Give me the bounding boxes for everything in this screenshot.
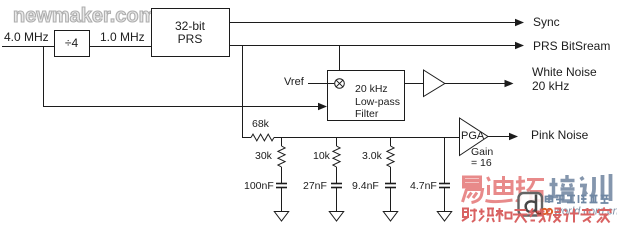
wire Sync output: [230, 22, 516, 24]
watermark small char 9: [597, 208, 611, 223]
value label 10k: [313, 151, 330, 163]
arrowhead PRS BitSream: [515, 42, 524, 50]
wire Pink Noise output: [488, 136, 510, 138]
wire rail left segment: [242, 137, 251, 139]
ground G2: [329, 212, 343, 222]
value label ÷4: [54, 37, 89, 50]
watermark logo box d: [519, 193, 543, 216]
watermark logo orange mark: [542, 209, 552, 214]
wire R4 to C3: [390, 167, 392, 183]
arrowhead Pink Noise: [509, 133, 518, 141]
multiplier M1: [335, 79, 345, 89]
watermark small char 8: [581, 208, 595, 223]
watermark red logo block: [450, 170, 617, 228]
watermark small char 3: [496, 208, 512, 222]
wire branch bitstream to multiplier: [339, 46, 341, 79]
ground G3: [383, 212, 397, 222]
wire 4.0MHz input: [2, 46, 54, 48]
watermark small char 6: [547, 209, 562, 223]
watermark big char 4: [549, 175, 575, 201]
wire rail to PGA: [274, 137, 460, 139]
watermark big char 1: [463, 177, 483, 203]
resistor R4 3.0k: [387, 146, 394, 167]
wire tap 30k: [281, 138, 283, 147]
watermark big char 3: [516, 176, 544, 201]
wire C4 to ground: [444, 188, 446, 212]
node label PRS BitSream: [533, 40, 610, 53]
wire branch bitstream down to pink filter: [242, 46, 244, 138]
value label 20 kHz Low-pass Filter: [355, 83, 400, 121]
resistor R1 68k: [251, 134, 274, 141]
resistor R2 30k: [278, 146, 285, 167]
value label 9.4nF: [352, 181, 379, 193]
value label 32-bit PRS: [151, 20, 229, 46]
watermark newmaker.com: [13, 5, 156, 28]
watermark small char 2: [479, 209, 494, 223]
watermark small char 4: [513, 210, 528, 223]
wire filter to buffer: [405, 83, 423, 85]
wire tap 3.0k: [390, 138, 392, 147]
capacitor C3 9.4nF: [385, 184, 396, 188]
wire 1.0MHz: [90, 46, 151, 48]
wire White Noise output: [445, 83, 505, 85]
divider box U1 ÷4: [55, 31, 90, 57]
node label 4.0 MHz: [4, 31, 49, 44]
value label 3.0k: [362, 151, 382, 163]
capacitor C4 4.7nF: [439, 184, 450, 188]
node label Pink Noise: [531, 129, 588, 142]
node label Vref: [284, 76, 304, 88]
PRS box U2 32-bit PRS: [152, 9, 230, 57]
node label 1.0 MHz: [100, 31, 145, 44]
svg-text:world.com.cn: world.com.cn: [554, 206, 617, 218]
capacitor C1 100nF: [276, 184, 287, 188]
wire tap 4.7nF: [444, 138, 446, 184]
watermark small char 7: [564, 209, 579, 223]
value label 30k: [255, 151, 272, 163]
wire R3 to C2: [336, 167, 338, 183]
node label White Noise 20 kHz: [532, 66, 597, 93]
value label 68k: [252, 119, 269, 131]
op-amp PGA A2: [460, 118, 489, 156]
resistor R3 10k: [333, 146, 340, 167]
ground G4: [437, 212, 451, 222]
ground G1: [274, 212, 288, 222]
arrowhead White Noise: [505, 80, 514, 88]
wire tap 10k: [336, 138, 338, 147]
wire PRS BitSream output: [230, 45, 516, 47]
wire C1 to ground: [281, 188, 283, 212]
value label 27nF: [303, 181, 327, 193]
watermark big char 5: [580, 174, 611, 201]
node label Sync: [533, 16, 560, 29]
value label 4.7nF: [410, 181, 437, 193]
value label 100nF: [244, 181, 274, 193]
wire branch clock down-left: [44, 47, 319, 107]
wire C2 to ground: [336, 188, 338, 212]
low-pass filter box U3: [328, 71, 405, 121]
op-amp buffer A1: [424, 70, 445, 97]
watermark logo text: [546, 195, 609, 204]
value label PGA: [461, 130, 484, 142]
capacitor C2 27nF: [331, 184, 342, 188]
arrowhead into filter: [318, 103, 327, 111]
wire C3 to ground: [390, 188, 392, 212]
wire R2 to C1: [281, 167, 283, 183]
watermark small char 1: [462, 209, 477, 223]
wire Vref to multiplier: [308, 83, 334, 85]
watermark big char 2: [486, 176, 513, 202]
arrowhead Sync: [515, 19, 524, 27]
watermark small char 5: [530, 209, 545, 223]
value label Gain = 16: [471, 147, 493, 168]
